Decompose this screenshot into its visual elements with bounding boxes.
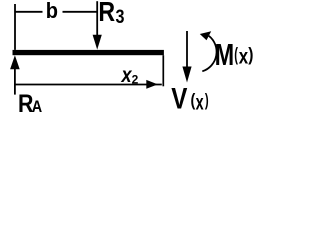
- dimension line x2: [15, 84, 162, 86]
- dimension line b (left segment): [15, 11, 43, 13]
- moment M arc: [202, 36, 216, 72]
- svg-text:M: M: [215, 37, 235, 72]
- beam: [13, 50, 164, 55]
- shear V arrowhead: [182, 67, 191, 83]
- reaction RA arrowhead: [10, 55, 20, 69]
- moment M arc arrowhead: [200, 31, 211, 40]
- svg-text:b: b: [46, 0, 58, 23]
- svg-text:A: A: [32, 98, 42, 114]
- label V(x): [171, 81, 208, 115]
- svg-text:V: V: [171, 81, 187, 114]
- section cut tick (right end): [162, 55, 164, 86]
- svg-text:R: R: [98, 0, 115, 28]
- label R3: [98, 0, 124, 28]
- dimension x2 arrowhead: [146, 80, 158, 89]
- svg-text:2: 2: [132, 72, 139, 86]
- label M(x): [215, 37, 254, 72]
- svg-text:x: x: [196, 91, 204, 114]
- svg-text:3: 3: [116, 6, 125, 28]
- svg-text:): ): [205, 90, 209, 110]
- force R3 arrowhead: [93, 35, 102, 50]
- svg-text:): ): [248, 44, 253, 64]
- label x2: [121, 64, 139, 88]
- dimension tick left (b): [14, 4, 16, 50]
- reaction RA arrow line: [14, 68, 16, 95]
- label RA: [18, 90, 42, 118]
- shear V arrow line: [186, 31, 188, 68]
- force R3 arrow line: [96, 1, 98, 36]
- dimension line b (right segment): [63, 11, 97, 13]
- svg-text:x: x: [239, 44, 249, 69]
